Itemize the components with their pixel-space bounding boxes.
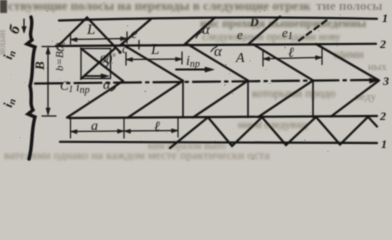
svg-text:A: A: [235, 51, 245, 66]
svg-text:2: 2: [379, 109, 386, 123]
svg-text:e: e: [131, 27, 137, 42]
svg-text:3: 3: [382, 74, 389, 88]
svg-text:e: e: [237, 27, 243, 42]
svg-text:C: C: [56, 39, 65, 54]
svg-text:α: α: [103, 78, 111, 93]
svg-text:2: 2: [379, 37, 386, 51]
svg-text:щими: щими: [334, 47, 364, 61]
svg-text:1: 1: [381, 137, 387, 151]
svg-text:тие полосы: тие полосы: [316, 0, 382, 13]
svg-text:a: a: [91, 119, 98, 134]
svg-text:ℓ: ℓ: [154, 120, 160, 135]
svg-text:c: c: [122, 41, 128, 56]
svg-text:ствующие полосы на переходы в: ствующие полосы на переходы в следующие …: [8, 0, 311, 13]
svg-text:α: α: [202, 22, 211, 38]
svg-text:ℓ: ℓ: [288, 46, 294, 61]
svg-text:L: L: [150, 42, 159, 58]
svg-text:D: D: [249, 15, 259, 29]
svg-text:ных: ных: [368, 61, 387, 73]
svg-text:L: L: [86, 22, 95, 38]
svg-text:следующими проездами нову: следующими проездами нову: [202, 31, 341, 43]
svg-text:вателями однако на каждом мест: вателями однако на каждом месте практиче…: [4, 148, 270, 162]
svg-text:B: B: [32, 61, 47, 71]
svg-text:1: 1: [382, 11, 388, 25]
svg-text:α: α: [214, 44, 223, 60]
